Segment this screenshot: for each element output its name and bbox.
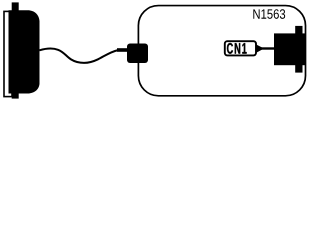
connector CN1 top tab [295,26,302,34]
label tail arrow [257,45,265,53]
connector P1 bottom stub [12,93,19,99]
connector P1 flange [4,11,12,96]
label CN1 text [227,43,247,54]
text N1563 [253,9,285,19]
card outline (board) [138,6,305,96]
connector CN1 body (edge connector) [274,33,305,65]
cable ferrule [117,48,129,52]
wire (cable from P1 to plug) [40,48,119,62]
plug into card left edge [127,44,148,64]
label CN1 box [225,41,256,55]
connector P1 body [9,10,40,93]
connector P1 top stub [12,2,19,11]
label tail line [261,47,276,49]
connector CN1 bottom tab [295,65,302,73]
